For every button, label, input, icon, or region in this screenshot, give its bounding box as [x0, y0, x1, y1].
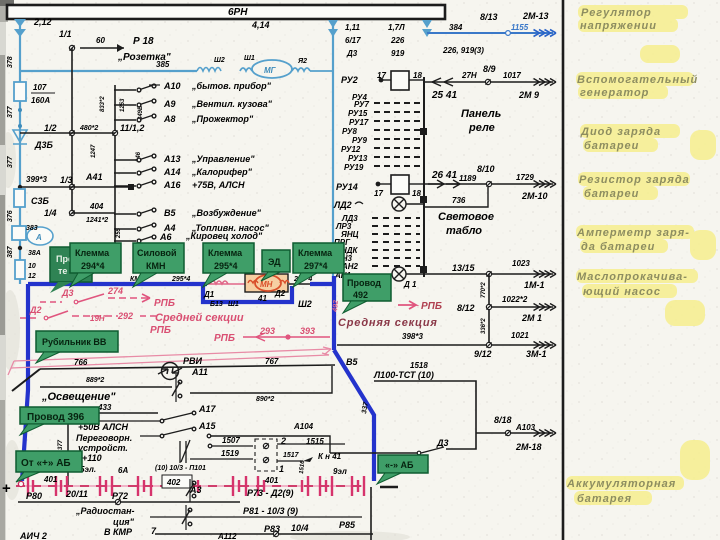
label Провод 492 [343, 274, 391, 313]
svg-text:МН: МН [260, 280, 273, 289]
svg-text:376: 376 [7, 210, 14, 222]
svg-text:Переговорн.: Переговорн. [76, 433, 132, 443]
svg-text:ЭД: ЭД [268, 257, 281, 267]
svg-text:„Прожектор": „Прожектор" [191, 114, 254, 124]
svg-text:1189: 1189 [459, 174, 477, 183]
relay dashed rows РУ4..РУ19 [374, 103, 422, 166]
svg-text:А10: А10 [163, 81, 181, 91]
svg-text:В5: В5 [346, 357, 358, 367]
svg-text:1519: 1519 [221, 449, 239, 458]
svg-text:1/4: 1/4 [44, 208, 57, 218]
wire: cyan left vertical 378 [14, 19, 26, 284]
svg-text:8/18: 8/18 [494, 415, 512, 425]
svg-text:4,14: 4,14 [251, 20, 270, 30]
svg-text:Панель: Панель [461, 108, 501, 120]
svg-text:К н 41: К н 41 [318, 452, 342, 461]
label Клемма 295*4 [203, 243, 254, 287]
svg-text:Р72: Р72 [112, 491, 128, 501]
svg-text:Р80: Р80 [26, 491, 42, 501]
svg-text:А17: А17 [198, 404, 217, 414]
svg-text:Б13: Б13 [210, 301, 223, 308]
wire: black stub right of МН [289, 283, 312, 285]
svg-text:РПБ: РПБ [421, 301, 442, 312]
svg-text:Я2: Я2 [297, 58, 307, 65]
svg-text:770*2: 770*2 [481, 282, 487, 298]
svg-text:А14: А14 [163, 167, 181, 177]
fuse 107/160А [14, 82, 26, 101]
svg-text:ющий насос: ющий насос [583, 286, 661, 298]
svg-text:Д2: Д2 [29, 305, 42, 315]
svg-text:Регулятор: Регулятор [581, 7, 652, 19]
coil left of motor МГ [197, 68, 221, 72]
svg-text:РУ2: РУ2 [341, 75, 358, 85]
svg-text:Маслопрокачива-: Маслопрокачива- [577, 271, 688, 283]
svg-text:А41: А41 [85, 172, 103, 182]
wire rows Р81 Р83 [150, 516, 362, 518]
svg-text:Силовой: Силовой [137, 248, 177, 258]
label Клемма 294*4 [70, 243, 121, 287]
svg-text:19Н: 19Н [90, 314, 105, 323]
svg-text:736: 736 [452, 196, 466, 205]
svg-text:батареи: батареи [584, 188, 639, 200]
svg-text:377: 377 [7, 155, 14, 168]
breaker А10 [114, 84, 156, 92]
wire: blue right vertical [332, 276, 336, 350]
svg-text:Вспомогательный: Вспомогательный [577, 74, 698, 86]
svg-text:Д1: Д1 [203, 290, 215, 299]
svg-text:А9: А9 [163, 99, 176, 109]
label Провод 396 [20, 407, 99, 435]
svg-text:11/1,2: 11/1,2 [120, 123, 144, 133]
svg-text:Диод заряда: Диод заряда [580, 126, 661, 138]
wire 433 row [40, 412, 158, 414]
svg-text:+110: +110 [82, 453, 102, 463]
svg-text:919: 919 [391, 49, 405, 58]
svg-text:1507: 1507 [222, 436, 240, 445]
svg-text:(10) 10/3 - П101: (10) 10/3 - П101 [155, 465, 206, 472]
svg-text:2М-13: 2М-13 [522, 11, 549, 21]
minus terminal [380, 486, 398, 488]
svg-text:+75В, АЛСН: +75В, АЛСН [192, 180, 245, 190]
svg-text:398*3: 398*3 [402, 332, 423, 341]
lamp Д1 [392, 267, 406, 281]
svg-text:38А: 38А [28, 250, 41, 257]
breaker А9 [114, 99, 156, 107]
label ЭД [261, 250, 290, 281]
svg-text:батареи: батареи [584, 140, 639, 152]
svg-text:А6: А6 [159, 232, 172, 242]
svg-text:404: 404 [89, 202, 104, 211]
svg-text:РПБ: РПБ [214, 333, 235, 344]
wire 736 loop [424, 187, 488, 207]
svg-text:Световое: Световое [438, 211, 494, 223]
wire row 13/15 1023 1М-1 [406, 273, 553, 275]
fuse bottom left [15, 260, 25, 279]
svg-text:2М-10: 2М-10 [521, 191, 548, 201]
svg-text:„Розетка": „Розетка" [117, 52, 171, 63]
svg-text:18: 18 [413, 71, 422, 80]
svg-text:26 41: 26 41 [431, 170, 457, 181]
svg-text:384: 384 [449, 23, 463, 32]
breaker А14 [114, 167, 156, 175]
svg-text:напряжении: напряжении [580, 20, 657, 32]
svg-text:766: 766 [74, 358, 88, 367]
svg-text:Д3: Д3 [436, 438, 449, 448]
breaker А16 [114, 180, 156, 188]
switch bottom [182, 505, 192, 530]
svg-text:реле: реле [468, 122, 495, 134]
svg-text:РУ12: РУ12 [341, 145, 361, 154]
svg-text:10/4: 10/4 [291, 523, 309, 533]
motor МГ [240, 60, 333, 78]
svg-text:2,12: 2,12 [33, 17, 52, 27]
svg-text:2М-18: 2М-18 [515, 442, 542, 452]
svg-text:1022*2: 1022*2 [502, 295, 528, 304]
wire: cyan horizontal 385 [20, 70, 197, 72]
svg-text:Средняя секция: Средняя секция [338, 317, 438, 329]
svg-text:Ш1: Ш1 [228, 301, 239, 308]
label Клемма 297*4 [293, 243, 344, 287]
svg-text:От «+» АБ: От «+» АБ [21, 458, 71, 469]
svg-text:60: 60 [96, 36, 105, 45]
wire: blue diagonal to minus battery [334, 350, 374, 481]
svg-text:Резистор заряда: Резистор заряда [579, 174, 690, 186]
svg-text:Д 1: Д 1 [403, 280, 417, 289]
svg-text:Провод: Провод [347, 278, 381, 288]
motor МН (oil pump) [245, 274, 288, 292]
svg-text:+: + [2, 480, 11, 497]
svg-text:1: 1 [279, 464, 284, 474]
svg-text:те: те [58, 266, 67, 276]
diode Д3Б [13, 130, 27, 144]
pink switch Д2 row [20, 311, 158, 318]
svg-text:Ш1: Ш1 [244, 55, 255, 62]
svg-text:1,7Л: 1,7Л [388, 23, 405, 32]
wire: blue U bus under Д1 Д2 [203, 286, 292, 302]
relay РВИ symbol [158, 363, 182, 380]
svg-text:8/12: 8/12 [457, 303, 475, 313]
svg-text:297*4: 297*4 [304, 261, 328, 271]
svg-text:377: 377 [7, 105, 14, 118]
svg-text:480*2: 480*2 [79, 125, 98, 132]
svg-text:401: 401 [264, 476, 279, 485]
svg-text:107: 107 [33, 83, 47, 92]
switch ladder vertical [114, 85, 116, 245]
svg-text:9эл: 9эл [333, 467, 347, 476]
relay bus vertical [423, 77, 425, 277]
pink knife switch blade (рубильник) [8, 347, 331, 375]
svg-text:377: 377 [58, 439, 64, 450]
svg-text:РУ14: РУ14 [336, 182, 358, 192]
wire row 8/12 1022*2 2М 1 [489, 306, 553, 308]
breaker А8 [114, 114, 156, 122]
svg-text:292: 292 [117, 311, 133, 321]
svg-text:293: 293 [259, 326, 275, 336]
label Рубильник ВВ [36, 331, 118, 363]
svg-text:12: 12 [28, 273, 36, 280]
svg-text:399*3: 399*3 [26, 175, 47, 184]
svg-text:РВИ: РВИ [183, 356, 203, 366]
svg-text:27Н: 27Н [461, 71, 477, 80]
svg-text:1/3: 1/3 [60, 175, 73, 185]
svg-text:226, 919(3): 226, 919(3) [442, 46, 484, 55]
breaker А6 [114, 235, 156, 243]
svg-text:1517: 1517 [283, 452, 300, 459]
svg-text:табло: табло [446, 225, 482, 237]
svg-text:да батареи: да батареи [581, 241, 655, 253]
fuse С3Б [14, 189, 25, 207]
svg-text:Д2: Д2 [274, 289, 286, 298]
node 11/1,2 [112, 130, 117, 135]
svg-text:890*2: 890*2 [256, 396, 274, 403]
svg-text:Л100-ТСТ (10): Л100-ТСТ (10) [373, 370, 434, 380]
wire: pink coil to МН [207, 281, 246, 284]
svg-text:1518: 1518 [410, 361, 428, 370]
breaker В5 [114, 208, 156, 216]
svg-text:492: 492 [332, 300, 340, 313]
svg-text:8/13: 8/13 [480, 12, 498, 22]
svg-text:160А: 160А [31, 96, 50, 105]
svg-text:1023: 1023 [512, 259, 530, 268]
wire row 8/18 А103 2М-18 [476, 432, 553, 434]
wire: blue left vertical to battery [22, 284, 28, 481]
svg-text:8/9: 8/9 [483, 64, 496, 74]
svg-text:„Вентил. кузова": „Вентил. кузова" [191, 99, 273, 109]
svg-text:„Кировец холод": „Кировец холод" [185, 231, 263, 241]
wire row 8/9 1017 [424, 81, 553, 83]
svg-text:РУ13: РУ13 [348, 154, 368, 163]
svg-text:378: 378 [7, 56, 14, 68]
svg-text:Амперметр заря-: Амперметр заря- [576, 227, 690, 239]
svg-text:1017: 1017 [503, 71, 521, 80]
svg-text:1021: 1021 [511, 331, 529, 340]
top bus bar 6РН [7, 5, 445, 19]
label От «+» АБ [16, 451, 82, 482]
svg-text:833*2: 833*2 [100, 96, 106, 112]
wire: blue stub to right vertical [310, 282, 334, 286]
svg-text:402: 402 [166, 478, 181, 487]
svg-text:МГ: МГ [264, 66, 277, 75]
svg-text:Д3: Д3 [61, 288, 74, 298]
svg-text:А8: А8 [163, 114, 176, 124]
label «-» АБ [377, 455, 428, 484]
breaker А13 [114, 154, 156, 162]
svg-text:387: 387 [7, 245, 14, 258]
svg-text:Р 18: Р 18 [133, 36, 154, 47]
scan edge left [0, 0, 6, 540]
svg-text:13/15: 13/15 [452, 263, 476, 273]
svg-text:ЛД2: ЛД2 [333, 200, 352, 210]
dashed box with contacts [255, 439, 277, 471]
svg-text:Р73 - Д2(9): Р73 - Д2(9) [247, 488, 294, 498]
svg-text:А: А [35, 233, 42, 242]
svg-text:КМН: КМН [146, 261, 166, 271]
svg-text:336*2: 336*2 [481, 318, 487, 334]
svg-text:401: 401 [43, 475, 58, 484]
svg-text:С3Б: С3Б [31, 196, 50, 206]
svg-text:Ш2: Ш2 [298, 299, 312, 309]
svg-text:РУ9: РУ9 [352, 136, 367, 145]
svg-text:„Радиостан-: „Радиостан- [75, 506, 135, 516]
svg-text:Р85: Р85 [339, 520, 356, 530]
svg-text:1/2: 1/2 [44, 123, 57, 133]
svg-text:Клемма: Клемма [75, 248, 110, 258]
svg-text:А3: А3 [189, 485, 202, 495]
svg-text:В КМР: В КМР [104, 527, 133, 537]
svg-text:9/12: 9/12 [474, 349, 492, 359]
svg-text:1516: 1516 [299, 460, 306, 474]
svg-text:РУ19: РУ19 [344, 163, 364, 172]
svg-text:А15: А15 [198, 421, 217, 431]
svg-text:295*4: 295*4 [214, 261, 238, 271]
svg-text:Ш2: Ш2 [214, 57, 225, 64]
svg-text:Аккумуляторная: Аккумуляторная [566, 478, 676, 490]
svg-text:„бытов. прибор": „бытов. прибор" [191, 81, 272, 91]
svg-text:А11: А11 [191, 367, 208, 377]
svg-text:2М 9: 2М 9 [518, 90, 539, 100]
svg-text:РУ15: РУ15 [348, 109, 368, 118]
svg-text:РУ17: РУ17 [349, 118, 369, 127]
svg-text:767: 767 [265, 357, 279, 366]
svg-text:РПБ: РПБ [150, 325, 171, 336]
contact pair [180, 440, 190, 463]
ammeter А [12, 226, 26, 240]
svg-text:РУ7: РУ7 [354, 100, 369, 109]
lamp dashed rows [372, 218, 420, 266]
svg-text:генератор: генератор [580, 87, 649, 99]
svg-text:Клемма: Клемма [208, 248, 243, 258]
svg-text:А16: А16 [163, 180, 182, 190]
main right vertical line [562, 0, 565, 540]
pink → РПБ arrow middle right [398, 301, 416, 309]
svg-text:3М-1: 3М-1 [526, 349, 547, 359]
pink switch Д3 row [40, 294, 150, 302]
svg-text:РПБ: РПБ [154, 298, 175, 309]
wire: pink battery bus [16, 485, 362, 487]
svg-text:17: 17 [374, 189, 383, 198]
breaker А4 [114, 223, 156, 231]
svg-text:Р81 - 10/3 (9): Р81 - 10/3 (9) [243, 506, 298, 516]
svg-text:492: 492 [353, 290, 368, 300]
cyan down-arrows under bar [328, 20, 432, 37]
svg-text:383: 383 [26, 225, 38, 232]
svg-text:1/1: 1/1 [59, 29, 72, 39]
svg-text:АИЧ 2: АИЧ 2 [19, 531, 47, 540]
svg-text:А103: А103 [515, 423, 536, 432]
svg-text:1729: 1729 [516, 173, 534, 182]
svg-text:25 41: 25 41 [431, 90, 457, 101]
svg-text:„Возбуждение": „Возбуждение" [191, 208, 262, 218]
wire: blue 384/1155 row to 2М-13 [427, 32, 553, 34]
svg-text:„Освещение": „Освещение" [41, 391, 116, 403]
svg-text:А13: А13 [163, 154, 181, 164]
svg-text:2М 1: 2М 1 [521, 313, 542, 323]
svg-text:393: 393 [300, 326, 315, 336]
svg-text:1515: 1515 [306, 437, 324, 446]
svg-text:Клемма: Клемма [298, 248, 333, 258]
wire: cyan vertical to middle section [332, 22, 334, 284]
svg-text:А112: А112 [217, 532, 237, 540]
svg-text:Д3Б: Д3Б [34, 140, 54, 150]
wire Освещение row [40, 386, 172, 388]
svg-text:Д3: Д3 [346, 49, 358, 58]
svg-text:Провод 396: Провод 396 [27, 412, 85, 423]
svg-text:17: 17 [377, 71, 386, 80]
svg-text:41: 41 [257, 294, 267, 303]
svg-text:1М-1: 1М-1 [524, 280, 545, 290]
svg-text:889*2: 889*2 [86, 377, 104, 384]
wire row Р80 Р72 [18, 501, 240, 503]
svg-text:А104: А104 [293, 422, 314, 431]
svg-text:В5: В5 [164, 208, 176, 218]
svg-text:Рубильник ВВ: Рубильник ВВ [42, 337, 107, 347]
svg-text:Средней секции: Средней секции [155, 312, 244, 324]
svg-text:«-» АБ: «-» АБ [385, 460, 414, 470]
svg-text:20/11: 20/11 [65, 489, 88, 499]
svg-text:8/10: 8/10 [477, 164, 495, 174]
svg-text:10: 10 [28, 263, 36, 270]
wire: vertical to battery [67, 413, 69, 486]
battery cells group 1 [28, 476, 364, 496]
svg-text:1155: 1155 [511, 23, 529, 32]
wire vertical right of minus [370, 487, 372, 540]
svg-text:274: 274 [107, 286, 123, 296]
svg-text:226: 226 [390, 36, 405, 45]
svg-text:батарея: батарея [577, 493, 632, 505]
svg-text:1247: 1247 [91, 144, 97, 158]
svg-text:6А: 6А [118, 466, 128, 475]
svg-text:1241*2: 1241*2 [86, 217, 108, 224]
svg-text:6РН: 6РН [228, 7, 248, 18]
yellow margin annotations [566, 5, 716, 505]
svg-text:„Управление": „Управление" [191, 154, 255, 164]
svg-text:„Калорифер": „Калорифер" [191, 167, 253, 177]
wire row 9/12 1021 3М-1 [337, 344, 553, 346]
svg-text:18: 18 [412, 189, 421, 198]
wires 1507/1519 [211, 445, 253, 447]
svg-text:6/17: 6/17 [345, 36, 361, 45]
wire: black vertical from 1/1 [71, 48, 73, 213]
label Силовой КМН [133, 243, 184, 287]
svg-text:295*4: 295*4 [171, 276, 190, 283]
wire: blue highlight top horizontal [28, 282, 207, 286]
svg-text:ция": ция" [113, 517, 135, 527]
svg-text:устройст.: устройст. [77, 443, 128, 453]
wire vertical 770*2/336*2 [488, 274, 490, 345]
wire row 8/10 1189 1729 [424, 183, 553, 185]
wire row 766 РВИ 767 [40, 365, 335, 369]
svg-text:РУ8: РУ8 [342, 127, 357, 136]
svg-text:294*4: 294*4 [81, 261, 105, 271]
svg-text:1,11: 1,11 [345, 23, 361, 32]
label box hidden Пре [50, 247, 92, 293]
